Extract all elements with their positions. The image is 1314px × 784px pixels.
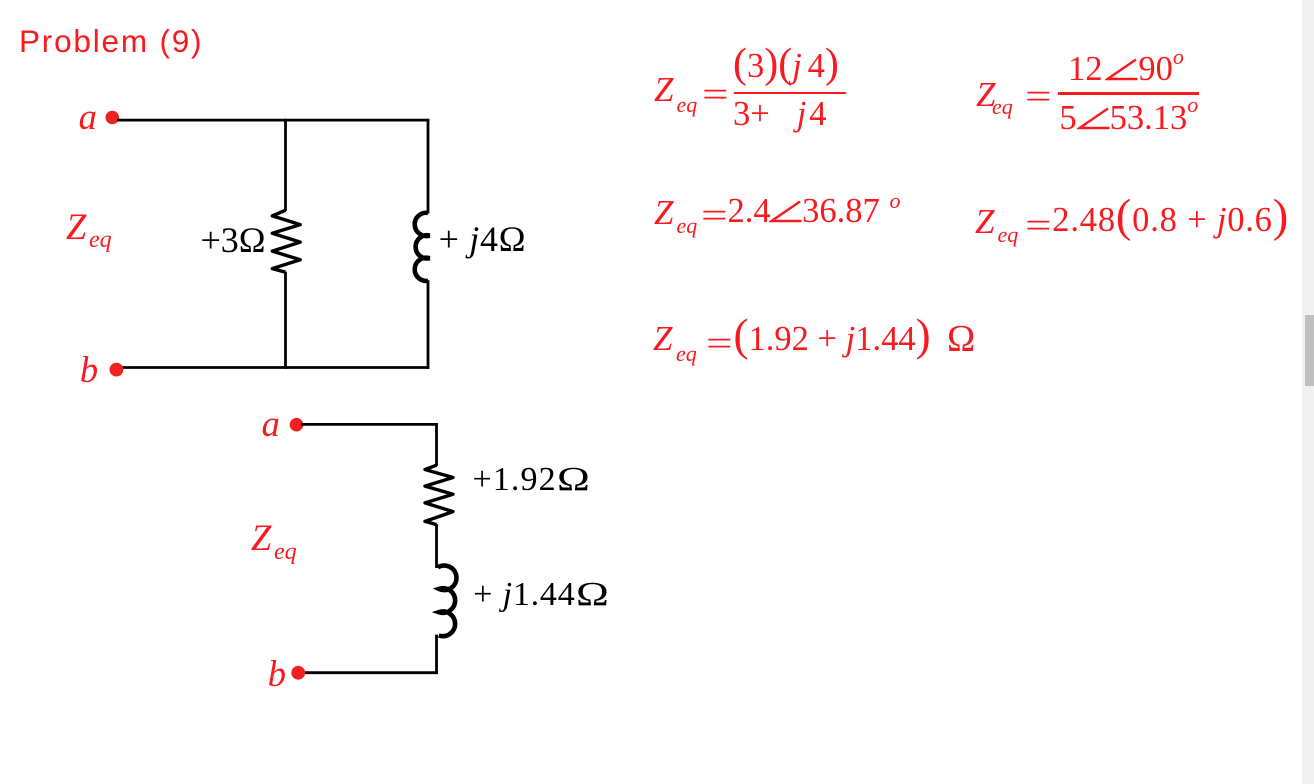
scrollbar track [1302, 0, 1314, 784]
node label a (circuit 1) [79, 99, 97, 136]
value label +1.92 ohm (resistor, circuit 2) [473, 463, 584, 497]
node b terminal dot (circuit 2) [291, 666, 305, 680]
eq1 numerator (3)(j4) [733, 43, 839, 85]
label Z_eq (circuit 1) [66, 209, 86, 246]
eq4 equals [1025, 208, 1045, 243]
node a terminal dot (circuit 2) [290, 418, 304, 432]
eq3 Z [654, 195, 673, 230]
eq3 subscript eq [677, 215, 698, 237]
eq1 fraction bar [734, 92, 846, 94]
eq1 subscript eq [677, 94, 698, 116]
eq5 Z [653, 321, 672, 356]
resistor R=+1.92 ohm zigzag (circuit 2) [425, 465, 453, 524]
eq2 fraction bar [1058, 92, 1199, 95]
eq2 numerator 12 angle 90 deg [1068, 52, 1184, 87]
node label b (circuit 2) [268, 656, 286, 693]
wire: top horizontal from node a (circuit 2) [301, 423, 438, 426]
wire: bottom horizontal to node b (circuit 1) [121, 366, 429, 369]
label Z_eq (circuit 2) [251, 520, 271, 557]
value label +j1.44 ohm (inductor, circuit 2) [473, 578, 601, 612]
value label +j4 ohm (inductor, circuit 1) [439, 221, 527, 257]
eq3 equals [701, 198, 721, 233]
eq4 Z [975, 204, 994, 239]
wire: inductor branch vertical top (circuit 1) [427, 119, 430, 214]
node a terminal dot (circuit 1) [106, 111, 120, 125]
value label +3 ohm (resistor, circuit 1) [201, 222, 266, 258]
node label b (circuit 1) [80, 352, 98, 389]
eq3 value 2.4 angle 36.87 deg [728, 194, 901, 229]
eq2 equals [1025, 79, 1045, 114]
eq4 subscript eq [998, 224, 1019, 246]
wire: bottom horizontal to node b (circuit 2) [303, 671, 438, 674]
eq5 value (1.92+j1.44) [734, 313, 931, 358]
eq4 value 2.48(0.8+j0.6) [1052, 194, 1289, 241]
eq1 denominator 3+j4 [733, 97, 826, 132]
eq5 equals [706, 326, 726, 361]
wire: vertical from inductor to bottom corner (circuit 2) [435, 635, 438, 675]
node label a (circuit 2) [262, 406, 280, 443]
inductor L=+j1.44 ohm coil (circuit 2) [438, 566, 457, 637]
scrollbar thumb [1305, 315, 1314, 386]
title: Problem (9) [19, 26, 203, 58]
circuit 1 drawing [0, 0, 660, 784]
eq5 ohm symbol [947, 320, 975, 358]
eq2 denominator 5 angle 53.13 deg [1059, 101, 1198, 136]
eq2 subscript eq [992, 96, 1013, 118]
node b terminal dot (circuit 1) [110, 363, 124, 377]
wire: vertical between resistor and inductor (circuit 2) [435, 524, 438, 568]
circuit 2 drawing [0, 390, 660, 784]
wire: top horizontal from node a (circuit 1) [117, 119, 429, 122]
wire: inductor branch vertical bottom (circuit 1) [427, 280, 430, 369]
eq5 subscript eq [676, 343, 697, 365]
eq1 equals [702, 77, 722, 112]
eq1 Z [654, 72, 673, 107]
resistor R=+3 ohm zigzag (circuit 1) [272, 210, 300, 272]
wire: vertical from top corner to resistor (circuit 2) [435, 423, 438, 466]
eq2 Z [976, 77, 995, 112]
wire: resistor branch vertical top (circuit 1) [284, 119, 287, 211]
inductor L=+j4 ohm coil (circuit 1) [415, 213, 430, 281]
wire: resistor branch vertical bottom (circuit 1) [284, 272, 287, 369]
